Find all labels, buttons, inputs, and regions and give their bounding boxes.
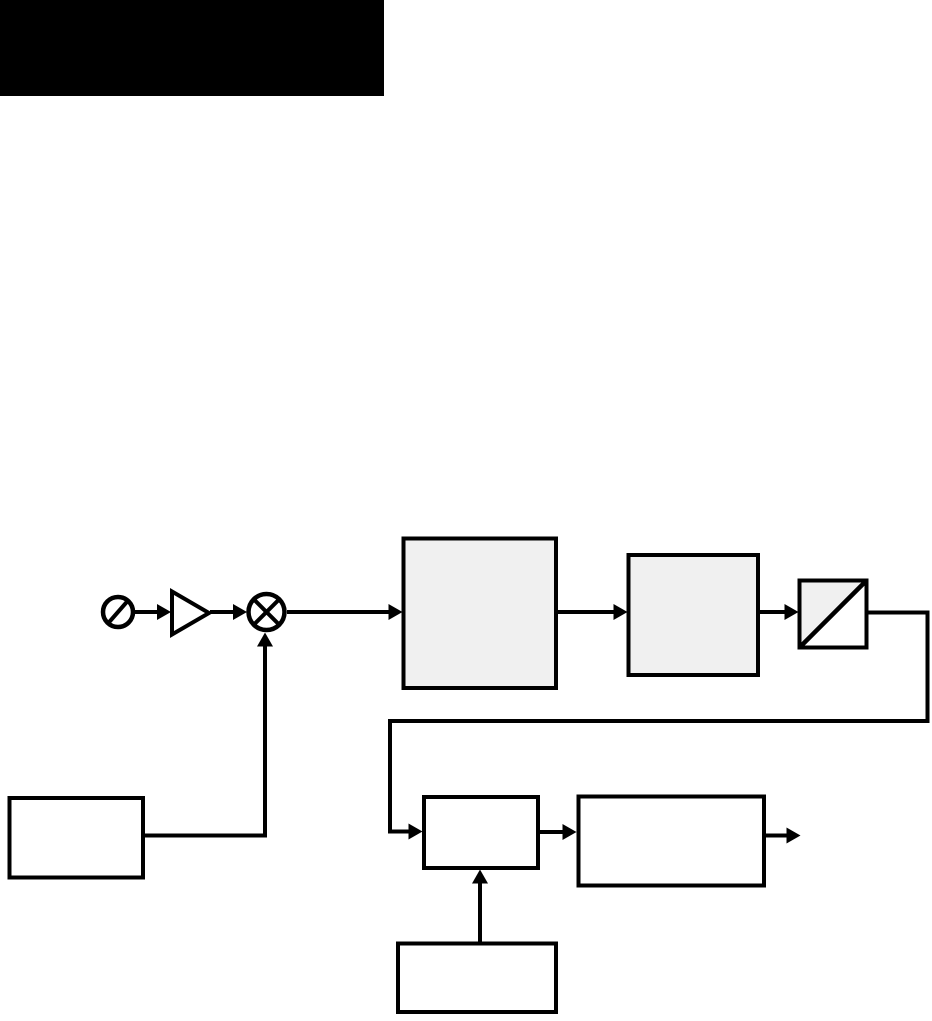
output arrow [765,834,788,838]
wire divider to output block [539,830,564,834]
arrowhead into divider [409,824,423,840]
wire amplifier to mixer [210,610,234,614]
wire OSC1 to amplifier [134,610,158,614]
oscillator OSC1 (circle with slash) [103,597,133,627]
converter block U1 (square with diagonal) [800,581,867,648]
wire mixer to loop filter block [287,610,390,614]
amplifier A1 (triangle) [172,592,209,635]
redacted black header block [0,0,384,96]
VCO block B2 [629,555,759,675]
arrowhead into loop filter block [389,604,403,620]
reference block B6 (left) [10,798,144,878]
arrowhead into mixer [233,604,247,620]
wire control block to divider [478,881,482,943]
control block B5 (bottom) [398,944,556,1013]
loop filter block B1 [404,539,557,689]
arrowhead up into mixer [257,633,273,647]
feedback wire from converter to divider [390,613,928,832]
arrowhead into amplifier [157,604,171,620]
mixer / phase detector M1 (circle with X) [249,594,285,630]
wire B1 to B2 [557,610,615,614]
output block B4 [579,797,765,886]
arrowhead into output block [563,824,577,840]
divider block B3 [424,797,538,868]
arrowhead up into divider [472,870,488,884]
arrowhead into B2 [614,604,628,620]
arrowhead into converter [785,604,799,620]
wire B2 to converter [759,610,786,614]
wire reference block to mixer [143,645,265,836]
